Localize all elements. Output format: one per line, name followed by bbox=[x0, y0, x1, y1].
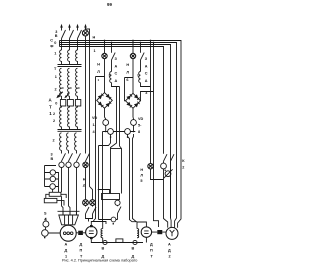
svg-text:Д: Д bbox=[150, 242, 153, 246]
wire bridge2 right corner up to right drops bbox=[141, 92, 154, 101]
ammeter A2 bbox=[108, 129, 114, 135]
svg-text:П: П bbox=[80, 248, 83, 252]
svg-text:А: А bbox=[44, 218, 47, 222]
motor AD1 brush trapezoid bbox=[59, 215, 79, 225]
svg-text:Д: Д bbox=[65, 248, 68, 252]
svg-text:Н: Н bbox=[140, 168, 143, 172]
socket circles SA bottom left bbox=[42, 218, 61, 237]
wire terminal row mid bbox=[99, 217, 118, 219]
wires G top and bottom bbox=[91, 222, 143, 243]
mid vertical pair bbox=[111, 87, 122, 194]
ammeter A3 bbox=[125, 129, 131, 135]
bus 3 bbox=[60, 45, 172, 228]
svg-text:3: 3 bbox=[55, 30, 57, 34]
svg-text:А: А bbox=[168, 242, 171, 246]
label HL bbox=[97, 63, 100, 75]
label HL6 bbox=[126, 63, 129, 82]
brush bar above AD1 bbox=[58, 210, 80, 212]
switch row contacts bbox=[62, 150, 90, 162]
wires from chain to right bbox=[55, 173, 58, 193]
rectifier bridge VD1-4 bbox=[97, 93, 113, 109]
frame top horizontal bbox=[111, 148, 122, 150]
terminal circles row bbox=[59, 162, 79, 167]
phase line A with arrow and knife contact bbox=[60, 24, 65, 50]
AT1 tap boxes bbox=[60, 100, 80, 107]
label SA bottom left bbox=[44, 212, 47, 222]
svg-text:Д: Д bbox=[168, 248, 171, 252]
svg-text:А: А bbox=[145, 79, 148, 83]
contacts below bottom lamps bbox=[86, 206, 97, 214]
small terminal circle bbox=[111, 217, 116, 222]
wire bridge2 bottom to A4 bbox=[132, 108, 135, 119]
label VD5-8 bbox=[138, 117, 144, 134]
motor AD2 bbox=[166, 227, 178, 239]
bus taps to HL5 bbox=[151, 41, 159, 228]
svg-text:А: А bbox=[115, 79, 118, 83]
svg-text:VD: VD bbox=[138, 117, 144, 121]
slider circle with arrow bbox=[164, 169, 173, 178]
wire HL5 bottom loop bbox=[151, 169, 164, 180]
label HL5 bbox=[140, 168, 143, 183]
labels VD VD bottom bbox=[102, 247, 135, 259]
svg-text:3: 3 bbox=[51, 153, 53, 157]
svg-text:1: 1 bbox=[94, 49, 96, 53]
contact below bbox=[118, 207, 122, 218]
svg-text:2: 2 bbox=[169, 254, 171, 258]
svg-text:В: В bbox=[55, 34, 58, 38]
svg-text:В: В bbox=[51, 157, 54, 161]
terminal circle K2 bbox=[161, 163, 167, 169]
wire L2 bottom to HL5 drop bbox=[141, 83, 151, 87]
svg-text:2: 2 bbox=[53, 119, 55, 123]
motor AD1 feed wires bbox=[62, 168, 77, 215]
lamp HL1 bbox=[82, 30, 88, 36]
svg-text:Д: Д bbox=[80, 242, 83, 246]
dc link horizontal bbox=[103, 131, 136, 133]
switch SA1 contact bbox=[112, 43, 116, 72]
transformer T2 core bbox=[58, 130, 82, 132]
svg-text:Н: Н bbox=[97, 63, 100, 67]
autotransformer slider arrows bbox=[56, 92, 69, 99]
wires DPT bbox=[137, 222, 146, 243]
long drop left of dc link bbox=[102, 132, 104, 222]
svg-text:8: 8 bbox=[138, 130, 140, 134]
corner drop from A2 bbox=[99, 134, 111, 219]
bus 1 bbox=[60, 41, 182, 228]
field winding of G bbox=[101, 229, 103, 238]
svg-text:2: 2 bbox=[182, 166, 184, 170]
box on bottom line bbox=[116, 239, 123, 243]
motor AD1 bbox=[60, 225, 76, 241]
svg-text:0: 0 bbox=[55, 102, 57, 106]
wire A4 down bbox=[133, 125, 135, 131]
label T1 bbox=[54, 67, 57, 79]
svg-text:0: 0 bbox=[54, 41, 56, 45]
socket circles chain bbox=[50, 170, 56, 190]
transformer T1 core bbox=[58, 65, 82, 67]
svg-text:Л: Л bbox=[140, 174, 143, 178]
label DPT right bbox=[150, 242, 154, 258]
label ZV switch bbox=[50, 30, 58, 56]
rheostat box 2 bbox=[44, 198, 57, 202]
svg-text:С: С bbox=[145, 72, 148, 76]
svg-text:6: 6 bbox=[126, 78, 128, 82]
machine DPT bbox=[141, 227, 151, 237]
terminal circle bottom 1 bbox=[103, 240, 107, 244]
rectifier bridge VD5-8 bbox=[126, 93, 141, 108]
svg-text:В: В bbox=[102, 247, 105, 251]
lamp HL1 feeder with arrow bbox=[84, 24, 87, 154]
ammeter A4 bbox=[131, 120, 137, 126]
lamp HL2 bbox=[102, 53, 107, 58]
lamp circle bottom mid bbox=[115, 200, 120, 207]
svg-text:2: 2 bbox=[55, 88, 57, 92]
svg-text:В: В bbox=[132, 247, 135, 251]
svg-text:VD: VD bbox=[92, 116, 98, 120]
label VD1-4 bbox=[92, 116, 98, 134]
label AT1 bbox=[49, 98, 58, 124]
wire HL4 to bottom lamp bbox=[85, 168, 87, 200]
drop from A3 bbox=[128, 134, 138, 221]
svg-text:2: 2 bbox=[53, 112, 55, 116]
coupling DPT-AD2 bbox=[152, 230, 166, 234]
wire A1 down bbox=[105, 125, 107, 131]
wire second drop from lamp line bbox=[86, 29, 93, 200]
svg-text:5: 5 bbox=[140, 179, 142, 183]
contactor K2 contact b bbox=[171, 154, 175, 218]
left chain bus bbox=[45, 166, 57, 187]
field winding of DPT bbox=[137, 229, 139, 238]
label SACA column 1 bbox=[115, 57, 118, 83]
wire bridge1 bottom to A1 bbox=[105, 108, 106, 120]
junction dots bbox=[85, 28, 155, 190]
svg-text:А: А bbox=[145, 65, 148, 69]
switch SA2 contact bbox=[141, 43, 145, 72]
terminal circle bottom 2 bbox=[133, 240, 137, 244]
svg-text:Т: Т bbox=[49, 105, 52, 110]
T1 secondary tap ticks bbox=[62, 87, 80, 89]
machine G DC generator bbox=[86, 225, 97, 239]
label HL under lamp bbox=[83, 178, 86, 189]
wires join below lamps bbox=[86, 214, 93, 222]
inductor L2 bbox=[139, 72, 141, 83]
svg-text:Рис. 4.2. Принципиальная схема: Рис. 4.2. Принципиальная схема лаборато bbox=[62, 259, 137, 263]
svg-text:А: А bbox=[65, 242, 68, 246]
bus left terminator bbox=[59, 41, 61, 47]
inductor L1 bbox=[110, 72, 112, 83]
contactor K2 contact a bbox=[164, 154, 168, 163]
svg-text:С: С bbox=[115, 72, 118, 76]
svg-text:1: 1 bbox=[55, 75, 57, 79]
svg-text:А: А bbox=[115, 65, 118, 69]
transformer T2 windings bbox=[60, 133, 77, 151]
wire L1 bottom to mid pair bbox=[112, 83, 120, 87]
wire lamp line to bridge1 left corner bbox=[93, 77, 105, 222]
svg-text:1: 1 bbox=[54, 52, 56, 56]
branch to shunt box bbox=[99, 190, 110, 194]
svg-text:99: 99 bbox=[107, 2, 112, 7]
coupling AD1-G bbox=[76, 231, 85, 235]
phase line C with arrow and knife contact bbox=[76, 24, 81, 50]
phase line B with arrow and knife contact bbox=[68, 24, 73, 50]
lamp HL3 bbox=[130, 53, 135, 58]
lamp HL4 bbox=[83, 162, 88, 167]
svg-text:Н: Н bbox=[126, 63, 129, 67]
svg-text:Л: Л bbox=[97, 70, 100, 74]
lamp HL2 drop bbox=[104, 41, 106, 93]
svg-text:С: С bbox=[50, 39, 53, 43]
svg-text:П: П bbox=[150, 248, 153, 252]
lamp HL5 bbox=[148, 164, 153, 169]
drop from A4 to DPT bbox=[133, 134, 137, 222]
svg-text:Л: Л bbox=[126, 71, 129, 75]
label K2 bbox=[182, 159, 185, 170]
svg-text:2: 2 bbox=[53, 139, 55, 143]
shunt box bbox=[102, 194, 120, 200]
bus 4 bbox=[60, 47, 164, 154]
transformer T1 secondary windings bbox=[60, 68, 78, 99]
label ZV2 bbox=[51, 153, 54, 162]
bottom lamps pair bbox=[83, 200, 96, 206]
AD2 feed flares bbox=[164, 180, 168, 228]
wire chain to box bbox=[52, 189, 54, 192]
label SACA column 2 bbox=[145, 57, 148, 83]
rheostat box 1 bbox=[49, 192, 61, 196]
label DPT left bbox=[80, 242, 84, 258]
ammeter A1 bbox=[103, 120, 109, 126]
wire lamp3 line to bridge2 left corner bbox=[125, 78, 134, 101]
rheostat wires bbox=[46, 194, 66, 205]
lamp HL3 drop bbox=[132, 41, 134, 94]
label H 1 bbox=[93, 36, 96, 54]
label AD1 bbox=[65, 242, 68, 258]
label AD2 bbox=[168, 242, 171, 258]
AT1 windings bbox=[60, 106, 78, 130]
pin marks bbox=[44, 136, 166, 238]
transformer T1 primary windings bbox=[60, 50, 78, 65]
svg-text:Н: Н bbox=[93, 36, 96, 40]
bus 2 bbox=[60, 43, 177, 228]
